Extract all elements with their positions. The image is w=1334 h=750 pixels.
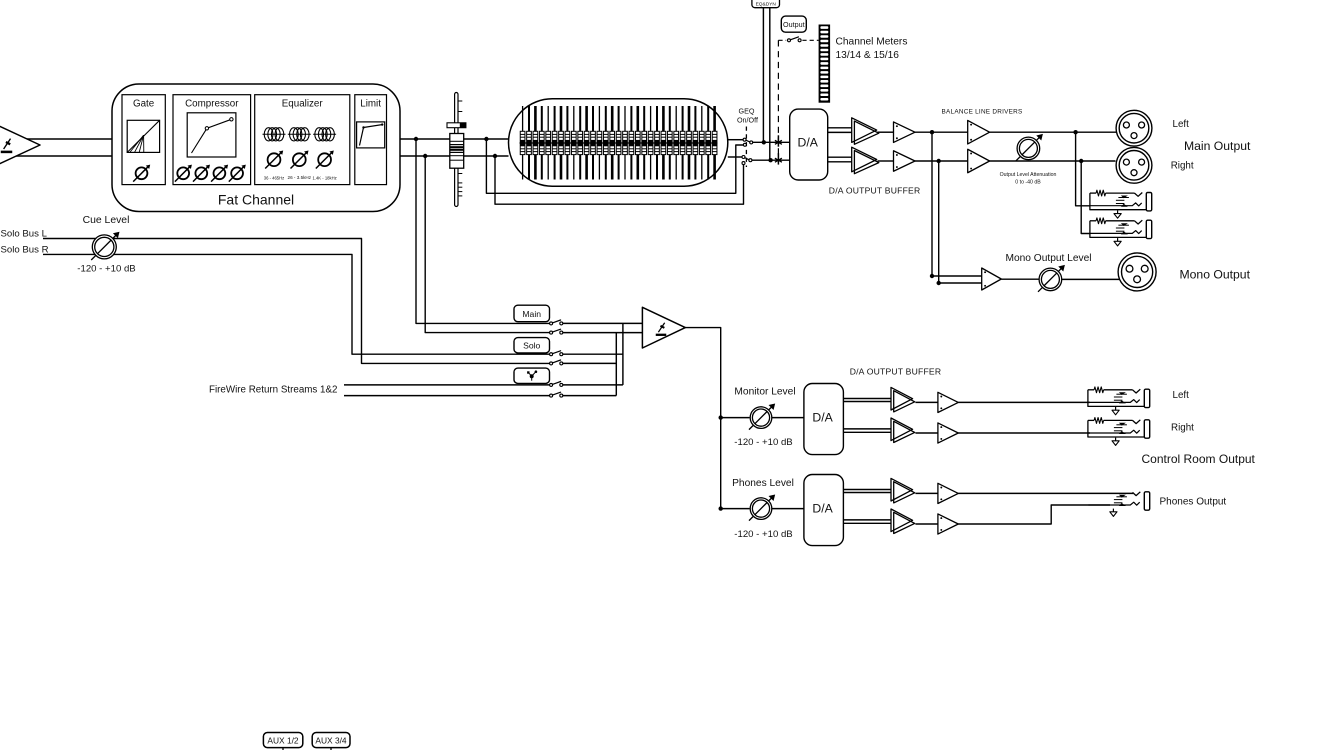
svg-text:Solo Bus L: Solo Bus L — [1, 228, 48, 239]
potentiometer cue level — [91, 232, 119, 260]
label Control Room Output — [1142, 452, 1256, 466]
op-amp out 1 — [938, 392, 958, 412]
potentiometer output level attenuation — [1016, 134, 1043, 161]
wire driver L to XLR — [990, 131, 1117, 133]
svg-text:36 - 465Hz: 36 - 465Hz — [264, 176, 284, 181]
node mono tap L — [930, 130, 934, 134]
node EQ&DYN R — [768, 158, 772, 162]
compressor block — [173, 95, 251, 185]
op-amp buffer 2 — [891, 509, 915, 534]
svg-text:EQ&DYN: EQ&DYN — [756, 2, 777, 8]
wire buf2 — [915, 523, 938, 525]
wire collector A — [622, 323, 624, 385]
label Phones Output — [1160, 496, 1227, 507]
wire pot to D/A — [772, 508, 804, 510]
wire monitor R out — [958, 432, 1090, 434]
wire D/A out R pair — [828, 157, 852, 162]
svg-text:Left: Left — [1173, 119, 1190, 130]
label Main Output — [1184, 139, 1251, 153]
node GEQ bypass tap L — [484, 137, 488, 141]
wire input amp to Fat Channel L — [20, 138, 112, 140]
wire solo bus R — [43, 254, 550, 354]
wire pot to mono XLR — [1062, 278, 1120, 280]
label Left (control room) — [1173, 390, 1190, 401]
op-amp line amp R — [894, 151, 916, 172]
node EQ&DYN L — [762, 140, 766, 144]
label Mono Output — [1180, 268, 1251, 282]
op-amp balanced buffer L — [852, 118, 879, 145]
svg-text:Right: Right — [1171, 160, 1194, 171]
wire GEQ out L — [728, 139, 743, 141]
svg-text:Output Level Attenuation: Output Level Attenuation — [1000, 172, 1057, 178]
svg-text:Mono Output: Mono Output — [1180, 268, 1251, 282]
TRS jack main left — [1090, 190, 1152, 211]
svg-text:AUX 3/4: AUX 3/4 — [315, 735, 347, 745]
svg-text:Monitor Level: Monitor Level — [734, 387, 795, 398]
op-amp out 2 — [938, 423, 958, 443]
label BALANCE LINE DRIVERS — [942, 109, 1023, 116]
label Phones Level — [732, 478, 794, 489]
wire main R to jack — [1081, 161, 1090, 234]
D/A converter (monitor) — [804, 384, 844, 455]
ground (phones jack) — [1110, 509, 1117, 517]
node phones tap — [719, 506, 723, 510]
XLR mono output — [1118, 253, 1156, 291]
ground (CR right jack) — [1112, 438, 1119, 446]
svg-text:On/Off: On/Off — [737, 116, 758, 125]
node GEQ bypass tap R — [493, 154, 497, 158]
wire main sel R — [563, 332, 643, 334]
wire D/A pair 2 — [843, 520, 891, 523]
switch GEQ On/Off L — [743, 138, 753, 146]
svg-text:Limit: Limit — [360, 99, 381, 110]
wire buffer R — [878, 160, 894, 162]
mute point R (asterisk) — [775, 153, 782, 164]
wire pot to D/A — [772, 417, 804, 419]
wire input amp to Fat Channel R — [12, 155, 112, 157]
wire solo sel R — [563, 362, 617, 364]
svg-text:Right: Right — [1171, 422, 1194, 433]
switch solo L — [550, 351, 563, 356]
label Solo Bus R — [1, 244, 49, 255]
switch Output mute (dashed control) — [778, 37, 818, 42]
svg-text:BALANCE LINE DRIVERS: BALANCE LINE DRIVERS — [942, 109, 1023, 116]
switch firewire 2 — [550, 392, 563, 397]
wire buffer L — [878, 131, 894, 133]
equalizer block — [255, 95, 350, 185]
op-amp out 1 — [938, 483, 958, 503]
op-amp buffer 1 — [891, 387, 915, 412]
wire monitor amp out — [685, 328, 720, 509]
svg-text:Control Room Output: Control Room Output — [1142, 452, 1256, 466]
wire D/A pair 1 — [843, 490, 891, 493]
Main select button — [514, 305, 550, 322]
wire buf1 — [915, 492, 938, 494]
wire main R to Main switch — [425, 156, 549, 333]
svg-text:Output: Output — [783, 20, 805, 29]
wire switch L to D/A — [753, 141, 790, 143]
op-amp mono summing amp — [982, 268, 1002, 290]
switch solo R — [550, 360, 563, 365]
label D/A OUTPUT BUFFER (monitor) — [850, 367, 942, 377]
svg-text:D/A: D/A — [812, 501, 833, 515]
svg-text:Cue Level: Cue Level — [83, 215, 130, 226]
wire collector B — [615, 333, 617, 396]
wire switch R to D/A — [752, 159, 790, 161]
svg-text:13/14 & 15/16: 13/14 & 15/16 — [836, 50, 900, 61]
wire GEQ bypass L — [486, 139, 743, 193]
label output level attenuation — [1000, 172, 1057, 186]
wire Output ctrl (dashed) — [777, 40, 779, 158]
graphic equalizer (31-band GEQ) — [509, 99, 728, 186]
D/A converter (main) — [790, 109, 828, 180]
wire phones R out — [958, 505, 1110, 524]
TRS jack control room right — [1088, 418, 1150, 439]
D/A converter (phones) — [804, 475, 844, 546]
svg-text:Main Output: Main Output — [1184, 139, 1251, 153]
label Mono Output Level — [1005, 253, 1091, 264]
node main out L — [1073, 130, 1077, 134]
wire firewire 2b — [563, 395, 617, 397]
wire D/A pair 2 — [843, 429, 891, 432]
op-amp U1 input summing amplifier — [0, 119, 40, 171]
op-amp out 2 — [938, 514, 958, 534]
svg-text:D/A OUTPUT BUFFER: D/A OUTPUT BUFFER — [829, 186, 921, 196]
wire EQ&DYN ctrl R — [769, 8, 771, 161]
label Solo Bus L — [1, 228, 48, 239]
wire tap to pot — [721, 508, 750, 510]
label Monitor Level — [734, 387, 795, 398]
svg-text:Fat Channel: Fat Channel — [218, 192, 294, 208]
EQ&DYN control box — [752, 0, 780, 8]
wire Fat Channel out L — [400, 138, 509, 140]
svg-text:Phones Output: Phones Output — [1160, 496, 1227, 507]
svg-text:Solo: Solo — [523, 341, 540, 351]
potentiometer monitor level — [749, 403, 775, 429]
wire GEQ out R — [728, 156, 742, 158]
wire line amp L to driver — [915, 131, 968, 133]
label phones range — [734, 529, 792, 540]
svg-text:-120 - +10 dB: -120 - +10 dB — [77, 264, 135, 275]
svg-text:FireWire Return Streams 1&2: FireWire Return Streams 1&2 — [209, 385, 337, 396]
TRS jack phones output — [1088, 492, 1149, 510]
XLR main output left — [1116, 110, 1152, 146]
wire main L to jack — [1076, 132, 1090, 206]
op-amp line amp L — [894, 122, 916, 143]
gate block — [122, 95, 165, 185]
GEQ On/Off label + gang line — [737, 107, 758, 168]
svg-text:26 - 3.5kHz: 26 - 3.5kHz — [288, 175, 312, 180]
svg-text:Main: Main — [522, 309, 541, 319]
wire mono feed R — [939, 161, 982, 283]
svg-text:D/A OUTPUT BUFFER: D/A OUTPUT BUFFER — [850, 367, 942, 377]
svg-text:Equalizer: Equalizer — [282, 99, 324, 110]
label D/A OUTPUT BUFFER (main) — [829, 186, 921, 196]
wire Fat Channel out R — [400, 155, 509, 157]
label Cue Level — [83, 215, 130, 226]
node monitor tap — [719, 415, 723, 419]
potentiometer mono output level — [1038, 265, 1065, 292]
wire driver R to XLR — [990, 160, 1116, 162]
label monitor range — [734, 437, 792, 448]
svg-text:Solo Bus R: Solo Bus R — [1, 244, 49, 255]
node main L tap — [414, 137, 418, 141]
mute point L (asterisk) — [775, 135, 782, 146]
wire main sel L — [563, 322, 643, 324]
switch firewire 1 — [550, 382, 563, 387]
op-amp buffer 2 — [891, 418, 915, 443]
limit block — [355, 95, 387, 185]
svg-text:Channel Meters: Channel Meters — [836, 37, 908, 48]
potentiometer phones level — [749, 494, 775, 520]
wire firewire 2 — [344, 395, 550, 397]
svg-text:Mono Output Level: Mono Output Level — [1005, 253, 1091, 264]
svg-text:GEQ: GEQ — [739, 107, 755, 116]
wire GEQ bypass R — [495, 156, 744, 204]
wire line amp R to driver — [915, 160, 968, 162]
ground (main right jack) — [1114, 238, 1121, 246]
wire D/A pair 1 — [843, 399, 891, 402]
wire D/A out L pair — [828, 128, 852, 133]
wire tap to pot — [721, 417, 750, 419]
op-amp balanced buffer R — [852, 147, 879, 174]
TRS jack main right — [1090, 218, 1152, 239]
AUX 3/4 box — [312, 733, 350, 750]
svg-text:Gate: Gate — [133, 99, 155, 110]
svg-text:D/A: D/A — [798, 135, 819, 149]
wire firewire 1b — [563, 384, 623, 386]
node main R tap — [423, 154, 427, 158]
wire phones L out — [958, 492, 1133, 494]
Output control box — [781, 16, 806, 32]
label Right (control room) — [1171, 422, 1194, 433]
svg-text:Phones Level: Phones Level — [732, 478, 794, 489]
channel meters 13/14 & 15/16 bargraph — [819, 25, 831, 103]
node mono R — [937, 281, 941, 285]
label FireWire Return Streams 1&2 — [209, 385, 337, 396]
XLR main output right — [1116, 147, 1152, 183]
svg-text:1.4K - 18kHz: 1.4K - 18kHz — [312, 176, 336, 181]
wire firewire 1 — [344, 384, 550, 386]
label Right (main) — [1171, 160, 1194, 171]
TRS jack control room left — [1088, 387, 1150, 408]
wire buf2 — [915, 432, 938, 434]
label Left (main) — [1173, 119, 1190, 130]
svg-text:AUX 1/2: AUX 1/2 — [267, 735, 299, 745]
label cue range — [77, 264, 135, 275]
master fader — [447, 93, 466, 207]
svg-text:Left: Left — [1173, 390, 1190, 401]
node mono tap R — [937, 159, 941, 163]
svg-text:D/A: D/A — [812, 410, 833, 424]
svg-text:-120 - +10 dB: -120 - +10 dB — [734, 437, 792, 448]
op-amp balance line driver R — [968, 149, 990, 173]
Solo select button — [514, 338, 550, 353]
switch GEQ On/Off R — [742, 156, 752, 165]
wire buf1 — [915, 401, 938, 403]
switch main L — [550, 320, 563, 325]
ground (main left jack) — [1114, 210, 1121, 218]
AUX 1/2 box — [263, 733, 302, 750]
op-amp monitor summing amplifier — [642, 307, 685, 348]
wire EQ&DYN ctrl L — [762, 8, 764, 143]
node mono L — [930, 274, 934, 278]
svg-text:Compressor: Compressor — [185, 99, 239, 110]
switch main R — [550, 329, 563, 334]
ground (CR left jack) — [1112, 407, 1119, 415]
Fat Channel processing block — [112, 84, 400, 212]
svg-text:-120 - +10 dB: -120 - +10 dB — [734, 529, 792, 540]
wire mono feed L — [932, 132, 982, 276]
wire solo bus L — [43, 239, 550, 364]
svg-text:0 to -40 dB: 0 to -40 dB — [1015, 180, 1041, 186]
wire main L to Main switch — [416, 139, 550, 323]
op-amp balance line driver L — [968, 120, 990, 144]
wire solo sel L — [563, 353, 623, 355]
wire mono amp to pot — [1001, 278, 1039, 280]
FireWire select button — [514, 368, 550, 383]
channel meters label — [836, 37, 908, 62]
node main out R — [1079, 159, 1083, 163]
op-amp buffer 1 — [891, 478, 915, 503]
wire monitor L out — [958, 401, 1090, 403]
